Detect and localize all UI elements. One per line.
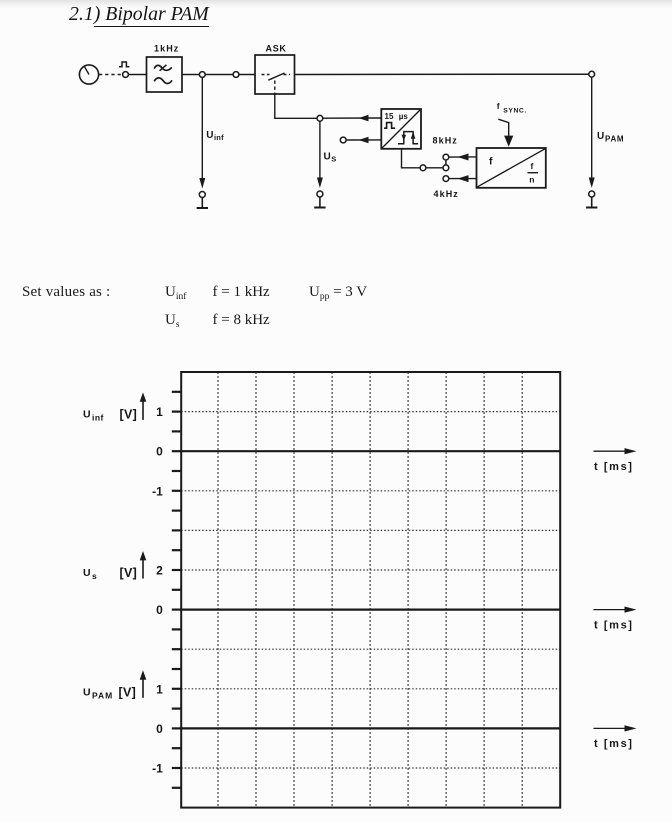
svg-text:ASK: ASK [266,44,287,54]
zero axis solid line UPAM [181,727,560,729]
terminal node (open circle) at generator input [123,72,129,78]
axis value labels UPAM [152,682,163,775]
label UPAM [V] with up arrow [83,670,146,700]
wire (dashed) generator to input terminal [99,74,123,76]
UPAM measurement branch with arrow [589,77,595,188]
svg-text:0: 0 [156,603,163,617]
svg-text:U: U [83,408,91,420]
wire shaper output down/right to patch terminal [402,149,421,168]
node (open circle) UPAM top [589,71,595,77]
svg-text:U: U [597,131,604,142]
grid dotted horizontal lines [181,412,560,768]
svg-text:1: 1 [156,405,163,419]
svg-text:0: 0 [156,445,163,459]
set values text block [0,0,672,1]
svg-text:inf: inf [214,133,224,142]
frequency divider block f/n [477,148,546,188]
left edge scale ticks [172,392,181,788]
svg-text:inf: inf [92,413,104,423]
svg-text:2: 2 [156,564,163,578]
node (open circle) Uinf tap [199,72,205,78]
Uinf measurement branch with arrow [199,77,205,188]
svg-text:8kHz: 8kHz [433,136,458,146]
ASK switch block [255,44,295,95]
pulse symbol at generator output [119,62,129,67]
wire terminal to 1kHz filter [128,74,146,76]
ground Uinf [197,198,208,209]
svg-text:SYNC.: SYNC. [503,108,527,115]
axis value labels Us [156,564,163,618]
wire node to middle patch terminal [426,167,443,169]
generator G1 (clock symbol) [79,65,98,84]
wire fSYNC into divider with down arrowhead [498,119,513,147]
ground UPAM [586,197,597,208]
svg-text:[V]: [V] [120,408,138,422]
svg-text:-1: -1 [152,484,163,498]
title "2.1) Bipolar PAM" [69,3,209,26]
grid border frame [181,372,560,808]
zero axis solid line Uinf [181,450,560,452]
wire ASK control down and right to Us node [275,94,317,118]
svg-text:f: f [531,161,534,171]
node (open circle) Us tap [317,115,323,121]
svg-text:t [ms]: t [ms] [594,461,634,473]
svg-text:s: s [92,571,97,581]
wire second input to pulse shaper with left arrowhead [346,137,381,144]
terminal (open circle) 8kHz [443,154,449,160]
svg-text:PAM: PAM [605,134,624,143]
terminal (open circle) Uinf [199,192,205,198]
svg-text:U: U [83,567,91,579]
svg-text:t [ms]: t [ms] [594,619,634,631]
svg-text:-1: -1 [152,762,163,776]
label Us [V] with up arrow [83,551,146,581]
wire node to pulse shaper with left arrowhead [323,115,382,122]
svg-text:S: S [331,154,336,163]
label Us [324,151,337,163]
1kHz sine source block [147,44,183,93]
grid vertical dashed lines [218,372,522,808]
patch link wire 8kHz to middle terminal [445,160,447,165]
svg-text:4kHz: 4kHz [434,189,459,199]
wire divider 8kHz output with left arrowhead [449,154,477,161]
svg-text:[V]: [V] [119,686,137,700]
label fSYNC [497,101,527,115]
svg-text:15: 15 [385,112,394,121]
terminal (open circle) second shaper input [340,137,346,143]
node (open circle) on shaper output [420,165,426,171]
svg-text:0: 0 [156,722,163,736]
ground Us [314,197,325,208]
svg-text:U: U [83,686,91,698]
terminal (open circle) UPAM [589,191,595,197]
svg-text:f: f [489,156,493,168]
node (open circle) ASK input [233,72,239,78]
svg-text:U: U [206,130,213,141]
time axis arrow 3 [594,725,637,750]
pulse shaper block 15us [381,109,421,149]
scan top shading band [0,0,672,8]
zero axis solid line Us [181,608,560,610]
svg-text:[V]: [V] [120,566,138,580]
svg-text:PAM: PAM [92,691,113,701]
svg-text:n: n [529,174,534,184]
time axis arrow 2 [594,607,637,632]
svg-text:µs: µs [399,112,409,121]
terminal (open circle) patch middle [443,165,449,171]
svg-text:1: 1 [156,682,163,696]
label UPAM [597,131,624,143]
axis value labels Uinf [152,405,163,498]
wire divider 4kHz output with left arrowhead [449,175,477,182]
Us measurement branch with arrow [317,121,323,188]
wire ASK output to UPAM node [295,73,590,75]
label Uinf [206,130,224,142]
svg-text:t [ms]: t [ms] [594,738,634,750]
terminal (open circle) Us [317,191,323,197]
terminal (open circle) 4kHz [443,176,449,182]
label Uinf [V] with up arrow [83,392,146,422]
svg-text:U: U [324,151,331,162]
time axis arrow 1 [594,448,637,473]
svg-text:f: f [497,101,500,111]
wire 1kHz to ASK with two nodes [182,74,255,76]
svg-text:1kHz: 1kHz [154,44,179,54]
